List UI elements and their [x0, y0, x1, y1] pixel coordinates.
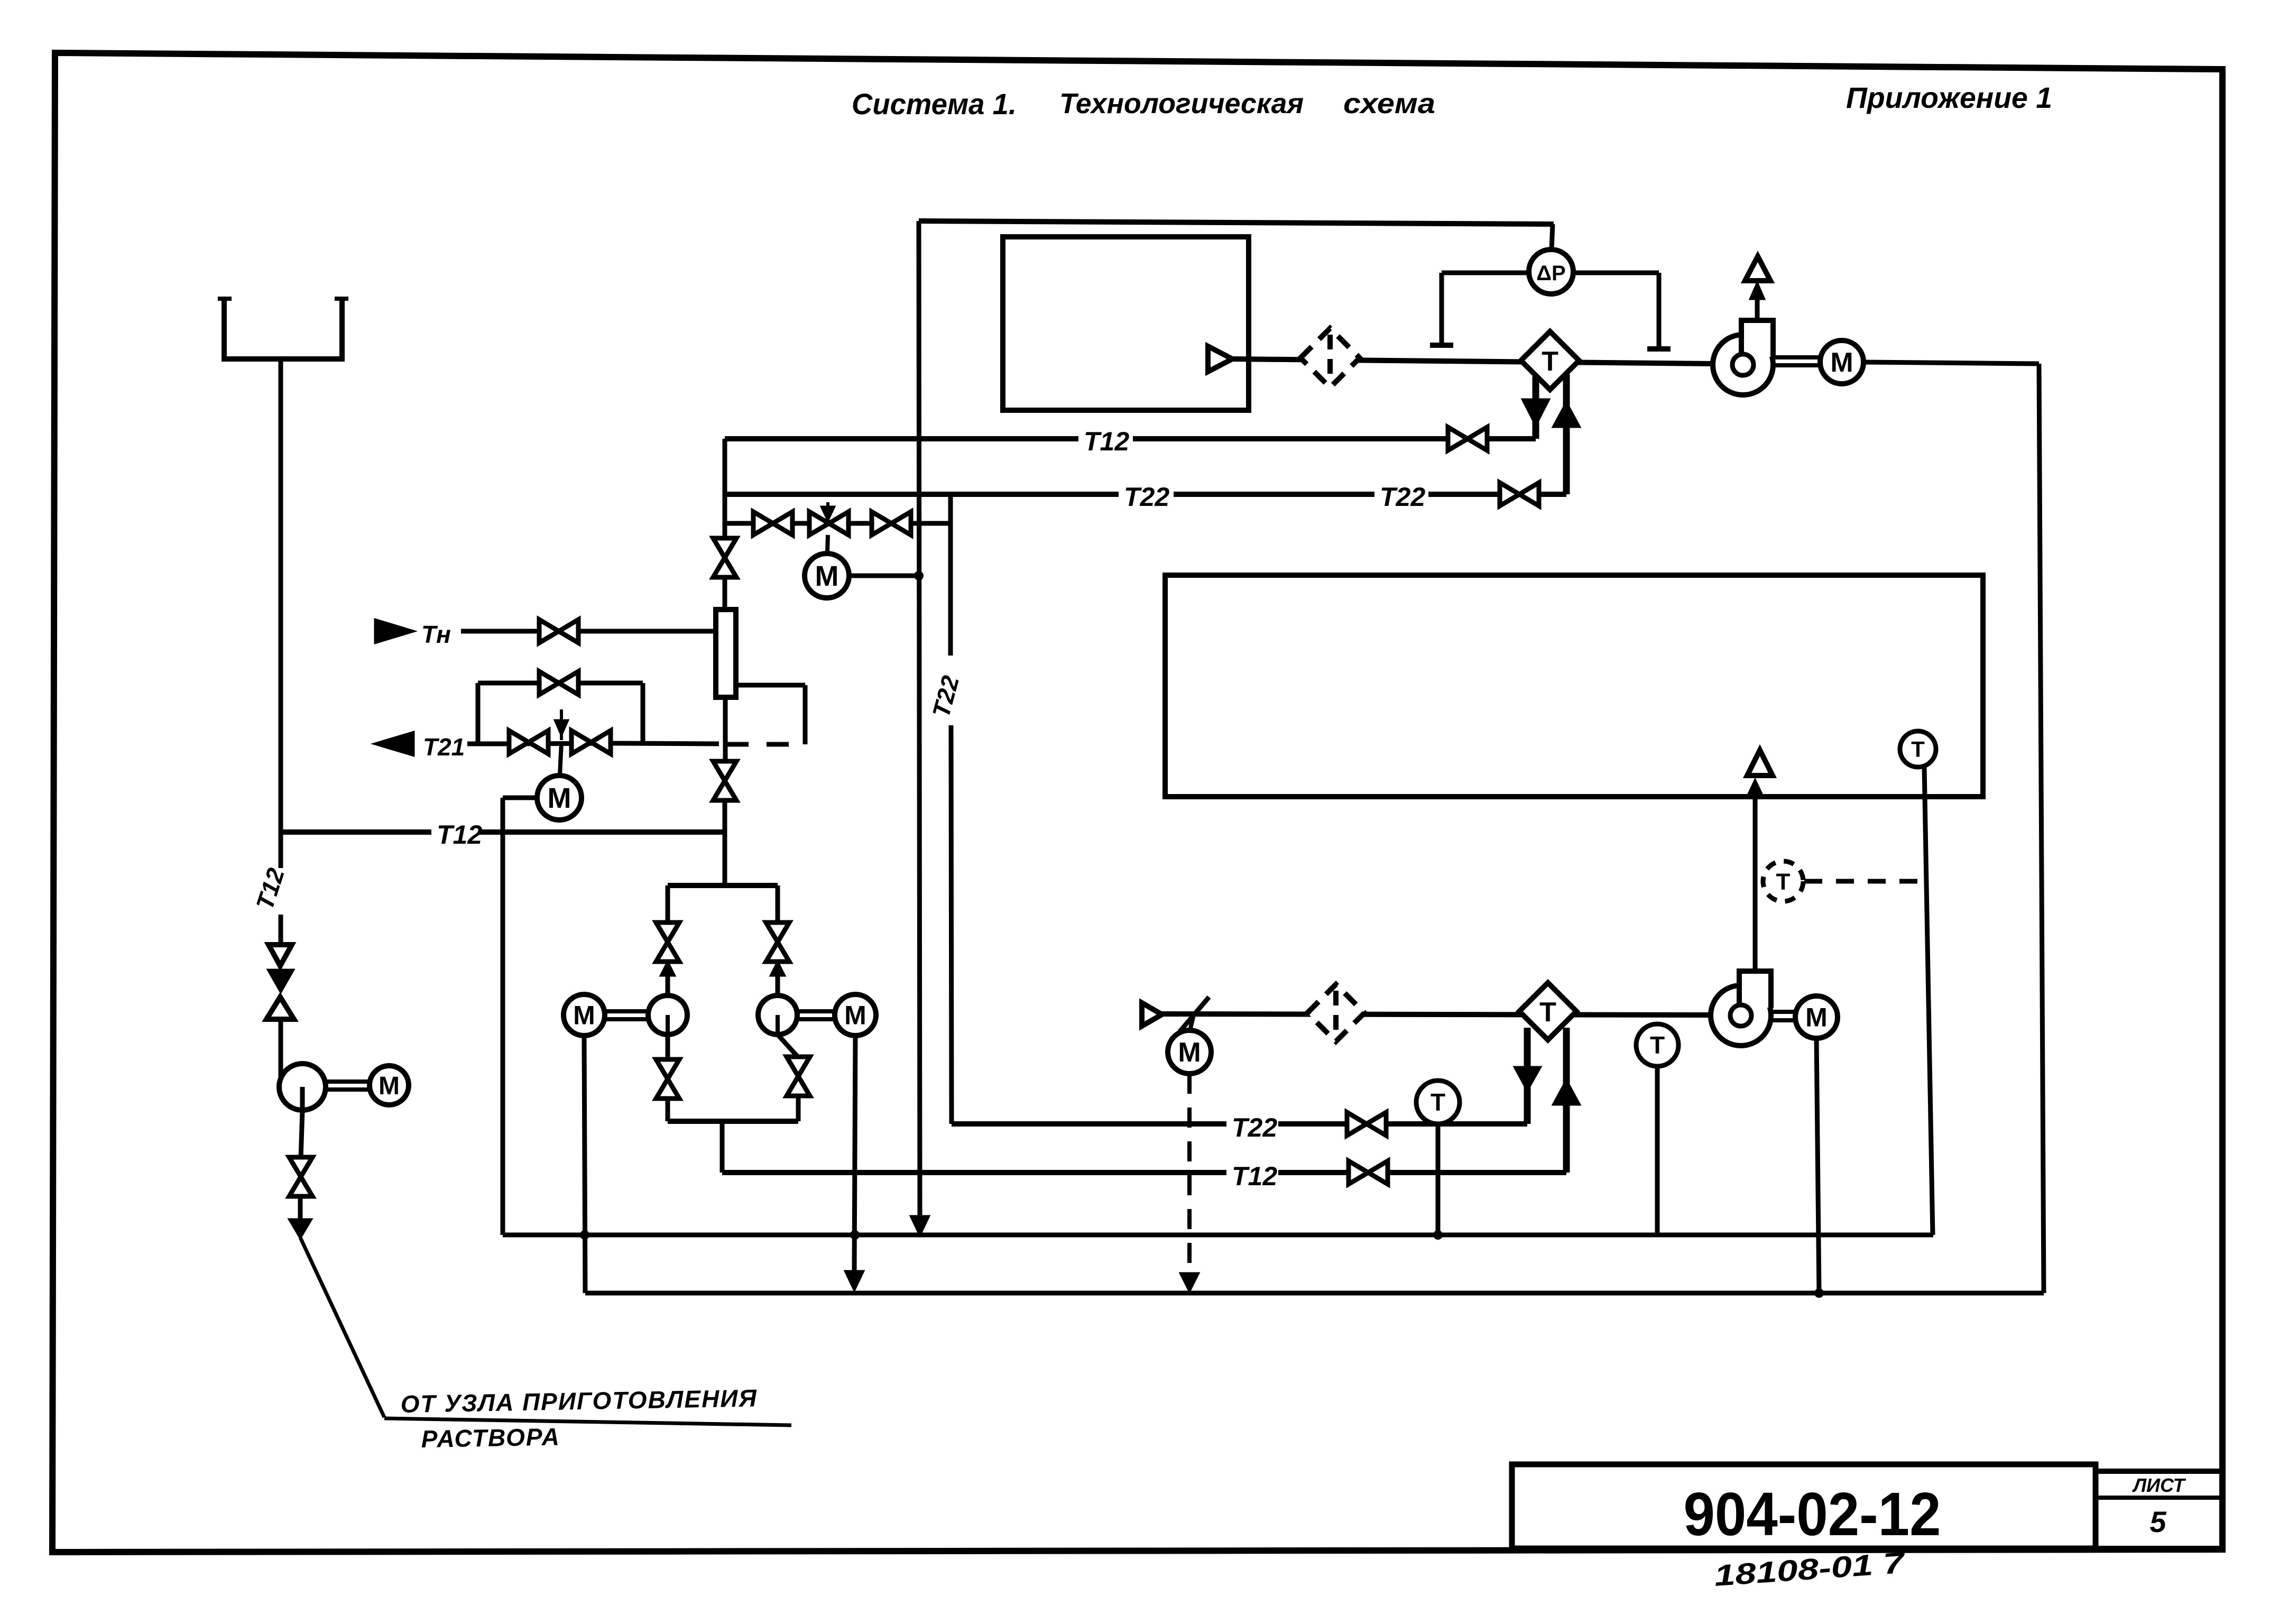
- svg-text:Т: Т: [1431, 1088, 1445, 1116]
- svg-text:5: 5: [2149, 1505, 2166, 1538]
- svg-text:904-02-12: 904-02-12: [1684, 1480, 1941, 1548]
- svg-text:М: М: [844, 1001, 866, 1030]
- svg-text:М: М: [1178, 1037, 1201, 1068]
- svg-text:М: М: [1805, 1003, 1828, 1032]
- svg-text:Т12: Т12: [1084, 427, 1129, 456]
- svg-text:Т22: Т22: [1380, 482, 1425, 512]
- svg-text:Т: Т: [1539, 997, 1556, 1028]
- svg-text:Т: Т: [1776, 869, 1791, 894]
- svg-text:Т: Т: [1650, 1031, 1665, 1059]
- svg-text:Система 1.: Система 1.: [852, 87, 1017, 121]
- svg-text:Т: Т: [1542, 346, 1558, 377]
- svg-text:РАСТВОРА: РАСТВОРА: [421, 1423, 560, 1453]
- svg-text:ΔР: ΔР: [1536, 262, 1565, 285]
- svg-text:М: М: [379, 1072, 400, 1100]
- svg-text:М: М: [573, 1001, 595, 1030]
- svg-text:М: М: [548, 782, 571, 814]
- svg-text:Технологическая: Технологическая: [1059, 88, 1304, 119]
- svg-text:Т22: Т22: [1232, 1113, 1277, 1142]
- svg-text:Т22: Т22: [1124, 482, 1169, 512]
- svg-text:схема: схема: [1343, 88, 1435, 119]
- svg-text:Тн: Тн: [421, 621, 451, 648]
- svg-text:М: М: [815, 560, 839, 592]
- svg-text:Т12: Т12: [437, 820, 482, 850]
- svg-text:Приложение 1: Приложение 1: [1846, 81, 2052, 114]
- svg-text:Т21: Т21: [423, 733, 465, 761]
- svg-text:Т: Т: [1911, 737, 1925, 762]
- svg-text:М: М: [1830, 347, 1853, 378]
- svg-text:Т12: Т12: [1232, 1161, 1277, 1191]
- svg-text:ЛИСТ: ЛИСТ: [2132, 1474, 2186, 1496]
